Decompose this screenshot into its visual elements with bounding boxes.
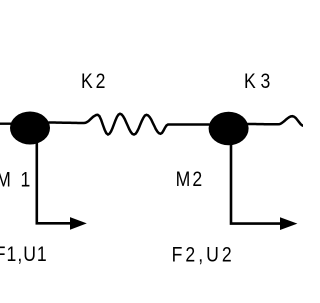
svg-text:M1: M1 bbox=[0, 168, 40, 192]
svg-text:M2: M2 bbox=[176, 167, 205, 191]
svg-text:F2,U2: F2,U2 bbox=[172, 243, 235, 267]
svg-text:F1,U1: F1,U1 bbox=[0, 243, 48, 267]
svg-text:K2: K2 bbox=[81, 69, 108, 93]
svg-text:K3: K3 bbox=[244, 69, 275, 93]
